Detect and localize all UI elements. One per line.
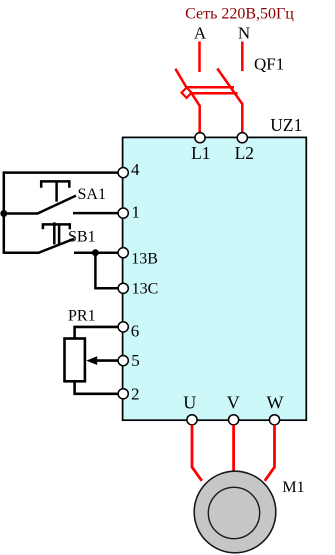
svg-text:Сеть 220В,50Гц: Сеть 220В,50Гц [185,6,294,23]
motor M1 inner circle [208,487,259,538]
svg-text:5: 5 [131,351,140,370]
svg-text:2: 2 [131,384,140,403]
svg-text:M1: M1 [282,479,304,496]
terminal 5 [118,356,128,366]
wire U to motor [192,425,202,481]
svg-text:SA1: SA1 [78,186,106,203]
wire 13B-13C jumper [95,253,119,289]
svg-text:4: 4 [131,160,140,179]
svg-text:QF1: QF1 [254,54,284,73]
junction node on 13B wire [92,249,99,256]
svg-text:V: V [227,392,240,412]
svg-text:13C: 13C [132,281,159,298]
svg-text:UZ1: UZ1 [270,115,302,135]
wire phase A stub [198,42,201,73]
svg-text:SB1: SB1 [68,229,96,246]
terminal 13B [118,248,128,258]
svg-text:PR1: PR1 [68,307,96,324]
svg-text:6: 6 [131,322,140,341]
svg-text:A: A [194,24,207,43]
svg-text:L2: L2 [235,143,254,163]
switch SA1 [4,181,119,213]
breaker QF1 [175,69,242,134]
terminal 13C [118,283,128,293]
VFD box UZ1 [123,137,307,420]
terminal 2 [118,389,128,399]
terminal L1 [195,133,205,143]
terminal 6 [118,322,128,332]
terminal U [187,415,197,425]
wire W to motor [265,425,275,481]
wire left bus [3,171,6,254]
wire phase N stub [241,42,244,72]
svg-text:1: 1 [132,203,141,222]
svg-text:N: N [238,24,250,43]
wire terminal 4 row [4,171,119,174]
wiper arrow of PR1 [86,356,97,365]
potentiometer PR1 [65,327,120,394]
motor M1 body [194,471,276,553]
switch SB1 [4,222,119,253]
terminal L2 [237,133,247,143]
svg-text:L1: L1 [191,143,210,163]
terminal 4 [118,168,128,178]
junction bus node [0,210,7,217]
terminal V [229,415,239,425]
wire V to motor [232,425,235,474]
svg-text:13B: 13B [131,250,158,267]
svg-text:U: U [183,392,196,412]
terminal W [269,415,279,425]
terminal 1 [118,208,128,218]
svg-text:W: W [267,392,284,412]
